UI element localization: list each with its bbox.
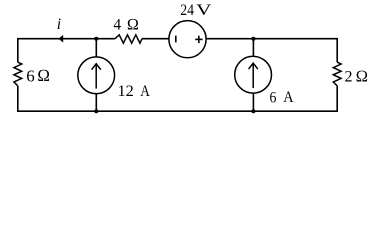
svg-text:Ω: Ω — [356, 66, 369, 85]
svg-text:24: 24 — [180, 1, 194, 19]
svg-text:i: i — [57, 16, 61, 33]
svg-text:A: A — [140, 81, 150, 100]
svg-text:12: 12 — [118, 81, 134, 100]
svg-text:4: 4 — [113, 17, 121, 34]
svg-text:Ω: Ω — [37, 66, 50, 85]
svg-text:6: 6 — [26, 66, 35, 85]
svg-text:Ω: Ω — [127, 17, 139, 34]
svg-text:V: V — [196, 2, 212, 19]
svg-text:2: 2 — [345, 68, 353, 85]
svg-text:6: 6 — [270, 87, 277, 106]
svg-text:A: A — [283, 87, 294, 106]
